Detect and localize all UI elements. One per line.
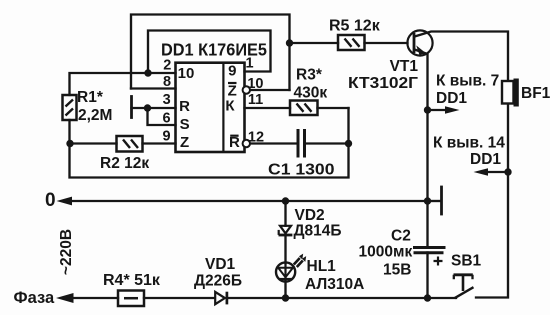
diode VD1 — [215, 292, 227, 305]
wire pin 3 — [132, 107, 176, 109]
wire pin 12 R-bar to C1 — [251, 142, 297, 144]
svg-text:АЛ310А: АЛ310А — [305, 276, 364, 293]
svg-text:11: 11 — [248, 92, 263, 108]
label frame DD1 connecting pin 1 — [148, 31, 271, 74]
svg-text:15В: 15В — [383, 262, 411, 279]
wire pin 11 to R3 — [245, 107, 291, 109]
wire emitter line below C2 — [426, 253, 428, 299]
node right rail pin14 — [504, 168, 511, 175]
wire R5 to base VT1 — [365, 42, 408, 44]
node 0 bus VD2 — [282, 197, 289, 204]
wire VD1 to SB1 left contact — [228, 297, 457, 299]
svg-text:SB1: SB1 — [451, 253, 482, 270]
svg-text:R2 12к: R2 12к — [100, 155, 149, 172]
node Z output — [286, 39, 293, 46]
wire pin 8 — [131, 87, 176, 89]
svg-text:R3*: R3* — [296, 67, 323, 84]
svg-text:10: 10 — [178, 65, 195, 82]
sensor plate left — [130, 97, 133, 118]
svg-text:КТ3102Г: КТ3102Г — [348, 75, 418, 92]
node RC — [345, 140, 352, 147]
svg-text:R4* 51к: R4* 51к — [103, 272, 161, 289]
resistor R5 — [338, 35, 365, 50]
wire left drop and bottom run to RC node — [70, 108, 349, 178]
wire collector VT1 to top right corner — [415, 32, 509, 82]
resistor R1 — [63, 95, 77, 120]
wire pin10 Z-bar output to riser — [251, 89, 290, 91]
overbar R — [230, 135, 238, 137]
svg-text:12: 12 — [248, 130, 264, 146]
capacitor C2 — [413, 248, 446, 266]
resistor R2 — [117, 136, 143, 152]
svg-text:0: 0 — [45, 190, 56, 211]
overbar Z — [228, 82, 237, 84]
svg-text:Z: Z — [180, 134, 189, 151]
wire C1 right to node — [306, 142, 349, 144]
wire HL1 to bottom rail — [284, 282, 286, 299]
wire emitter VT1 down — [415, 50, 428, 248]
svg-text:DD1: DD1 — [436, 90, 467, 107]
svg-text:R: R — [179, 98, 190, 115]
pin 10 inversion bubble — [243, 86, 250, 93]
svg-text:6: 6 — [162, 111, 170, 127]
wire R2 right to pin 9 — [143, 142, 176, 144]
wire stub to right sensor plate — [428, 200, 441, 202]
wire R4 to VD1 — [144, 297, 214, 299]
svg-text:9: 9 — [162, 129, 170, 145]
svg-text:R1*: R1* — [77, 89, 104, 106]
node bottom rail C2 — [424, 294, 431, 301]
svg-text:C1 1300: C1 1300 — [268, 162, 335, 179]
svg-text:BF1: BF1 — [521, 85, 550, 102]
zener VD2 — [279, 226, 293, 235]
svg-text:430к: 430к — [294, 85, 328, 102]
svg-text:К выв. 7: К выв. 7 — [436, 73, 499, 90]
wire R1 bottom — [68, 120, 70, 144]
resistor R3 — [290, 101, 318, 116]
svg-text:2: 2 — [163, 57, 171, 73]
wire R1/R2 junction to R2 left — [70, 142, 117, 144]
svg-text:3: 3 — [163, 92, 171, 108]
svg-text:10: 10 — [247, 76, 263, 92]
arrowhead pin 14 — [474, 168, 489, 176]
arrowhead pin 7 — [445, 106, 460, 114]
svg-text:Фаза: Фаза — [14, 289, 55, 307]
svg-text:VT1: VT1 — [390, 58, 419, 75]
wire pin 2 and R1 top — [70, 73, 176, 95]
wire BF1 bottom to SB1 right contact — [476, 104, 508, 298]
wire R3 right to node — [318, 107, 349, 109]
svg-text:9: 9 — [228, 63, 236, 80]
wire VD2 branch — [284, 201, 286, 226]
node pin2 junction — [144, 69, 151, 76]
wire pin 3 to pin 6 link — [148, 108, 176, 125]
wire Z node to R5 — [290, 42, 339, 44]
svg-text:К выв. 14: К выв. 14 — [433, 135, 505, 152]
svg-text:1: 1 — [246, 56, 254, 72]
resistor R4 — [118, 291, 144, 307]
arrowhead Фаза — [56, 293, 74, 303]
svg-text:S: S — [180, 116, 190, 133]
transistor VT1 — [407, 30, 432, 55]
svg-text:VD1: VD1 — [205, 256, 236, 273]
IC DD1 body — [176, 63, 251, 152]
wire bottom rail arrow to R4 — [73, 297, 118, 299]
wire VD2 to HL1 — [284, 236, 286, 263]
node emitter to pin7 — [424, 106, 431, 113]
svg-text:~220В: ~220В — [58, 229, 75, 275]
wire arrow to pin 7 DD1 — [428, 109, 447, 111]
svg-text:2,2М: 2,2М — [78, 107, 112, 124]
svg-text:8: 8 — [163, 74, 171, 90]
node 0 bus emitter — [424, 197, 431, 204]
svg-text:R5 12к: R5 12к — [329, 18, 381, 35]
svg-text:Д226Б: Д226Б — [194, 273, 242, 290]
svg-text:DD1: DD1 — [470, 151, 501, 168]
svg-text:К: К — [225, 98, 235, 115]
speaker BF1 — [502, 79, 519, 107]
wire top feedback loop from pins 2/8 to Z output node — [131, 15, 290, 91]
svg-text:1000мк: 1000мк — [359, 244, 413, 261]
svg-text:C2: C2 — [391, 228, 411, 245]
LED HL1 — [276, 254, 306, 282]
sensor plate right — [440, 187, 443, 214]
wire 0 bus — [72, 200, 428, 202]
capacitor C1 — [298, 129, 305, 158]
button SB1 — [454, 275, 474, 298]
wire arrow to pin 14 DD1 — [487, 171, 508, 173]
svg-text:Д814Б: Д814Б — [294, 223, 342, 240]
svg-text:HL1: HL1 — [307, 258, 337, 275]
node R1 R2 junction — [66, 140, 73, 147]
node pin3 junction — [144, 104, 151, 111]
svg-text:VD2: VD2 — [295, 207, 325, 224]
node bottom rail HL1 — [282, 294, 289, 301]
pin 12 inversion bubble — [243, 140, 250, 147]
arrowhead 0 bus — [57, 197, 73, 206]
